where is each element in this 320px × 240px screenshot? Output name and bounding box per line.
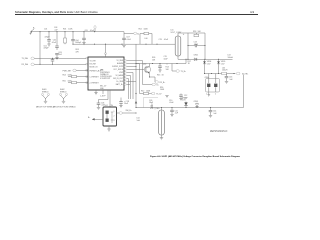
wire bus pin2 xyxy=(127,64,140,94)
zener VR05 xyxy=(217,59,225,73)
capacitor C13 ladder rung2 xyxy=(187,42,205,48)
capacitor C02 xyxy=(51,31,62,57)
svg-text:R05: R05 xyxy=(63,80,66,82)
svg-text:L06: L06 xyxy=(145,38,148,40)
svg-text:CR01: CR01 xyxy=(194,54,199,56)
flag UNSW B+ xyxy=(30,27,36,34)
wire bus pin6 xyxy=(127,76,131,100)
IC U01 body xyxy=(88,57,124,90)
svg-text:MECH TOP SHIELD: MECH TOP SHIELD xyxy=(36,107,55,109)
svg-text:VCC_MODE: VCC_MODE xyxy=(113,69,123,71)
ground under C01 xyxy=(47,44,50,46)
wire bus pin9 xyxy=(127,84,130,86)
wire rail1 end corner x=124 xyxy=(123,32,125,39)
wire emitter flag line y=84.5 xyxy=(143,83,160,86)
resistor R03 label below rail2 xyxy=(76,49,80,53)
svg-text:2: 2 xyxy=(114,115,115,117)
svg-text:R15: R15 xyxy=(157,75,160,77)
IC U01 top supply pin xyxy=(105,44,107,57)
svg-text:CR05: CR05 xyxy=(194,101,199,103)
svg-text:TX_B+: TX_B+ xyxy=(181,71,187,73)
resistor R05 xyxy=(63,80,89,84)
wire bus pin4 base of Q02 xyxy=(127,69,145,71)
wire connector x=186 xyxy=(185,59,187,63)
svg-text:2: 2 xyxy=(215,94,216,96)
resistor R18 ladder rung1 xyxy=(188,31,205,37)
svg-text:B+: B+ xyxy=(33,27,35,29)
svg-text:IC SUPPORT: IC SUPPORT xyxy=(100,78,110,80)
svg-text:5V_SNS: 5V_SNS xyxy=(117,60,124,62)
svg-text:RX_B+: RX_B+ xyxy=(160,82,166,84)
flag 5V out of U02 right xyxy=(117,110,137,114)
IC U01 right pin labels xyxy=(112,60,124,86)
zener VR04 xyxy=(203,59,211,73)
diode pack CR04 box xyxy=(205,74,220,96)
svg-text:5V_BASE: 5V_BASE xyxy=(115,74,123,77)
IC U02 body xyxy=(103,107,117,126)
capacitor C20 between input lines xyxy=(51,58,54,65)
capacitor C14 below rail xyxy=(209,108,218,116)
resistor R09 label xyxy=(152,57,156,61)
svg-text:100uH: 100uH xyxy=(222,70,228,72)
node TX stub dark junction xyxy=(135,93,136,94)
wire rail1 top B+ rail y=31.7 xyxy=(31,31,125,33)
resistor R04 xyxy=(63,74,89,78)
svg-text:SHIELD: SHIELD xyxy=(42,91,49,93)
diode CR05 xyxy=(194,101,199,108)
capacitor C09 above rail xyxy=(149,100,154,108)
header rule xyxy=(15,14,258,16)
svg-text:C01: C01 xyxy=(44,28,47,30)
IC U01 center labels xyxy=(100,70,112,90)
wire line B y=73.5 xyxy=(205,73,236,75)
svg-text:C05: C05 xyxy=(85,30,88,32)
wire TX_5V line y=93.5 xyxy=(140,90,163,95)
svg-text:RX_INH: RX_INH xyxy=(22,64,29,66)
svg-text:RX_INH: RX_INH xyxy=(90,63,97,65)
ground under C06 xyxy=(97,107,100,109)
svg-text:R12: R12 xyxy=(141,90,144,92)
flag B+ into U02 left xyxy=(88,117,103,120)
svg-text:TX_5V: TX_5V xyxy=(156,94,162,96)
IC U01 bottom pin stub xyxy=(100,90,106,97)
ground under C14 xyxy=(209,115,212,117)
transformer T01 label xyxy=(171,30,183,34)
wire rail2 y=44.2 xyxy=(73,43,175,45)
connector TX_INH input xyxy=(22,57,89,60)
flag TX_B+ oval xyxy=(172,64,186,74)
ground under T02 xyxy=(160,138,163,140)
svg-text:R02: R02 xyxy=(139,29,142,31)
svg-text:B+_SNS: B+_SNS xyxy=(116,81,123,83)
svg-text:1: 1 xyxy=(114,111,115,113)
svg-text:2_PWRSET: 2_PWRSET xyxy=(89,82,98,84)
shield SH02 symbol xyxy=(59,94,67,104)
inductor L03 label xyxy=(228,55,234,59)
capacitor C01 xyxy=(44,28,51,49)
svg-text:C_BYP: C_BYP xyxy=(100,95,106,97)
shield SH02 label xyxy=(60,89,67,93)
svg-text:MODE_5V: MODE_5V xyxy=(90,66,99,68)
svg-text:1000pF: 1000pF xyxy=(75,42,82,44)
capacitor C12 right of Q02 bottom xyxy=(179,94,188,101)
capacitor C07 xyxy=(122,37,132,48)
capacitor C10 label above rail xyxy=(169,100,174,104)
svg-text:R18: R18 xyxy=(193,31,196,33)
page background xyxy=(0,0,270,175)
capacitor C06 below IC xyxy=(97,90,108,107)
svg-text:3: 3 xyxy=(114,120,115,122)
IC U01 left pin labels xyxy=(89,60,100,84)
flag SW B+ oval at x=136 xyxy=(124,32,139,35)
svg-text:VOLT_REG: VOLT_REG xyxy=(150,108,160,110)
wire line y=63.5 right of Q02 xyxy=(150,63,187,65)
svg-text:Figure 4-6. UHF1 (403-470 MHz: Figure 4-6. UHF1 (403-470 MHz) Voltage C… xyxy=(150,155,240,158)
svg-text:VSW: VSW xyxy=(119,72,123,74)
ground right area under emitter xyxy=(165,96,168,98)
resistor R02 loop above rail2 xyxy=(139,29,153,45)
capacitor C08 on y63.5 xyxy=(158,64,162,73)
wire IC bottom to U02 top xyxy=(109,90,111,107)
resistor R17 label xyxy=(188,61,191,65)
capacitor C03 label above rail xyxy=(54,27,58,31)
transistor Q02 xyxy=(143,64,151,78)
node lower rail junctions xyxy=(135,107,136,108)
resistor R16 xyxy=(160,87,165,91)
svg-text:B+: B+ xyxy=(88,117,90,119)
capacitor C10 right of T02 xyxy=(170,108,179,115)
IC U01 left pin stubs xyxy=(86,58,88,83)
inductor L05 xyxy=(222,67,228,74)
ground under U02 xyxy=(107,126,110,131)
svg-text:ALARM: ALARM xyxy=(117,62,123,65)
node rail2 junctions xyxy=(94,44,95,45)
svg-text:R01: R01 xyxy=(63,28,66,30)
capacitor C05 xyxy=(82,30,95,43)
electrolytic C18 xyxy=(119,98,129,108)
svg-text:SW_IN_OUT: SW_IN_OUT xyxy=(113,78,123,80)
svg-text:1_PWRSET: 1_PWRSET xyxy=(89,76,98,78)
wire Q02 collector up xyxy=(136,63,150,65)
svg-text:100uH: 100uH xyxy=(228,57,234,59)
svg-text:SUPER_FLTR: SUPER_FLTR xyxy=(112,66,124,68)
wire T01 top to ladder xyxy=(178,32,188,34)
svg-text:4-9: 4-9 xyxy=(250,10,254,14)
transformer T02 body xyxy=(159,108,165,138)
wire loop box right of TX stub xyxy=(144,98,159,108)
connector flag top P1 xyxy=(94,26,96,33)
capacitor C04 xyxy=(71,31,82,45)
ground under C05 xyxy=(82,43,85,45)
svg-text:SHIELD: SHIELD xyxy=(60,91,67,93)
wire ladder vertical right x=205 xyxy=(204,33,206,59)
node on long vertical xyxy=(135,66,136,67)
svg-text:Q02: Q02 xyxy=(143,64,146,66)
ground under C03 xyxy=(55,58,58,60)
transformer T02 label xyxy=(150,106,160,110)
inductor L04 label xyxy=(137,118,141,122)
wire long drop x=40 to input line xyxy=(39,32,41,65)
diode CR01 ladder rung3 xyxy=(194,54,199,60)
svg-text:470pF: 470pF xyxy=(45,36,51,38)
svg-text:ACTRL: ACTRL xyxy=(242,73,248,76)
svg-text:PWR_SET: PWR_SET xyxy=(63,70,73,72)
transformer T01 body xyxy=(175,33,185,59)
ground under C16 xyxy=(225,81,228,83)
svg-text:BATT_B+: BATT_B+ xyxy=(116,83,123,86)
wire ACTRL down and lower rail return xyxy=(136,75,244,108)
svg-text:C19: C19 xyxy=(159,39,162,41)
IC U01 bottom ground xyxy=(94,90,97,95)
ground under CR04 xyxy=(208,92,211,97)
wire ladder vertical left x=188 xyxy=(187,33,189,59)
resistor R14 xyxy=(166,64,170,71)
svg-text:R04: R04 xyxy=(63,74,66,76)
ground under C10 xyxy=(170,114,173,116)
wire T01 bottom to line y=59.3 xyxy=(178,58,233,60)
flag RX_B+ oval xyxy=(149,76,165,84)
shield SH01 symbol xyxy=(41,94,49,104)
svg-text:SW_B+: SW_B+ xyxy=(126,110,132,112)
capacitor C15 label xyxy=(164,56,169,60)
svg-text:U02: U02 xyxy=(105,105,108,107)
resistor R15 label xyxy=(157,75,164,77)
wire long vertical x=136 xyxy=(135,44,137,107)
svg-text:ZEP1513015-O: ZEP1513015-O xyxy=(210,130,227,133)
svg-text:PWRSET_ALT: PWRSET_ALT xyxy=(90,69,101,72)
svg-text:1: 1 xyxy=(206,94,207,96)
svg-text:TX_INH: TX_INH xyxy=(90,60,97,62)
wire bus pin7 xyxy=(127,79,129,100)
capacitor C19 label above rail2 xyxy=(159,39,169,41)
svg-text:B+: B+ xyxy=(137,33,139,35)
resistor R01 xyxy=(63,28,73,44)
shield SH01 label xyxy=(42,89,49,93)
connector PWR_SET input xyxy=(63,69,89,72)
svg-text:Schematic Diagrams, Overlays,: Schematic Diagrams, Overlays, and Parts … xyxy=(15,10,98,14)
svg-text:470pF: 470pF xyxy=(44,48,50,50)
zener VR06 dark xyxy=(182,97,188,107)
svg-text:MECH BOTTOM SHIELD: MECH BOTTOM SHIELD xyxy=(53,107,76,109)
IC U01 right pin stubs xyxy=(124,60,126,85)
flag ACTRL xyxy=(237,72,249,75)
svg-text:TX_INH: TX_INH xyxy=(22,58,29,60)
node rail1/vertical drop xyxy=(39,31,40,32)
connector RX_INH input xyxy=(22,63,89,66)
wire bus pin5 xyxy=(127,73,133,100)
wire bus pin3 xyxy=(127,66,136,68)
wire bus pin8 xyxy=(127,81,136,83)
wire bus pin1 xyxy=(127,61,143,85)
capacitor C16 xyxy=(225,74,234,82)
